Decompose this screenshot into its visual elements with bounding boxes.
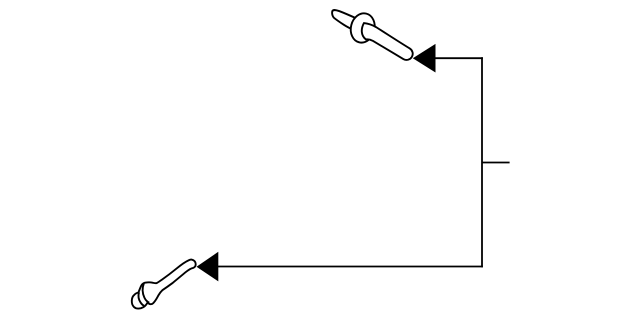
bulb B2 rib arc near shoulder xyxy=(143,284,150,303)
bulb B2 (bottom, wedge bulb) xyxy=(132,260,196,309)
arrow A2 (points to bulb B2) xyxy=(197,252,219,282)
arrow A1 (points to bulb B1) xyxy=(413,44,436,73)
wire: bottom horizontal leader segment from corner to arrow A2 xyxy=(218,266,483,268)
bulb B2 outline xyxy=(132,260,196,309)
bulb B1 base body xyxy=(357,21,415,65)
wire: vertical leader segment (right side) xyxy=(481,57,483,267)
bulb B2 rib arc near tip xyxy=(139,292,145,305)
callout tick on vertical leader xyxy=(482,162,509,164)
wire: top horizontal leader segment from arrow A1 to corner xyxy=(434,57,483,59)
bulb B1 glass tip xyxy=(332,10,357,31)
bulb B1 flange collar xyxy=(348,11,378,45)
